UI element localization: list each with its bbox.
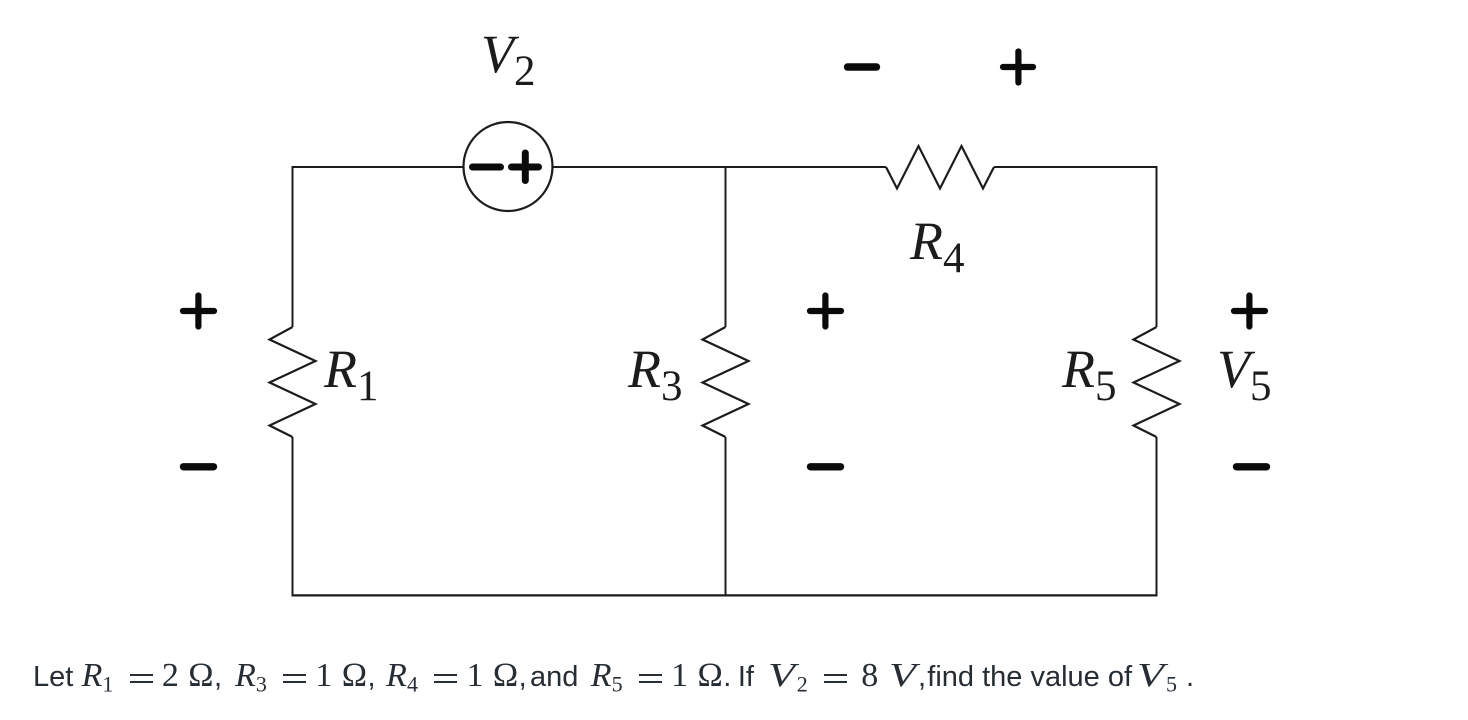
resistor R5 <box>1134 327 1180 437</box>
voltage source V2 plus terminal <box>512 153 539 181</box>
plus sign right (V5) <box>1234 296 1265 327</box>
wire left vertical lower <box>292 437 294 596</box>
minus sign right (V5) <box>1237 463 1267 470</box>
label R4 <box>910 210 965 283</box>
plus sign middle (R3 voltage) <box>810 296 841 327</box>
label R5 <box>1062 338 1117 411</box>
wire right vertical upper <box>1156 166 1158 327</box>
wire top-right horizontal <box>994 166 1157 168</box>
label R1 <box>324 338 379 411</box>
resistor R3 <box>703 327 749 437</box>
minus sign middle (R3 voltage) <box>811 463 841 470</box>
wire top-left horizontal <box>293 166 464 168</box>
wire middle vertical upper <box>725 167 727 327</box>
label V5 <box>1217 338 1272 411</box>
wire top-middle horizontal <box>553 166 887 168</box>
plus sign top (R4 voltage) <box>1003 52 1033 83</box>
caption <box>33 656 1194 705</box>
resistor R4 <box>886 146 994 189</box>
wire left vertical upper <box>292 166 294 327</box>
voltage source V2 minus terminal <box>473 164 501 171</box>
wire bottom horizontal <box>292 594 1158 596</box>
voltage source V2 circle <box>464 122 553 211</box>
plus sign left (R1 voltage) <box>183 296 214 327</box>
label V2 <box>481 23 536 96</box>
minus sign top (R4 voltage) <box>848 63 877 70</box>
wire middle vertical lower <box>725 437 727 596</box>
label R3 <box>628 338 683 411</box>
minus sign left (R1 voltage) <box>184 463 214 470</box>
wire right vertical lower <box>1156 437 1158 596</box>
resistor R1 <box>270 327 316 437</box>
